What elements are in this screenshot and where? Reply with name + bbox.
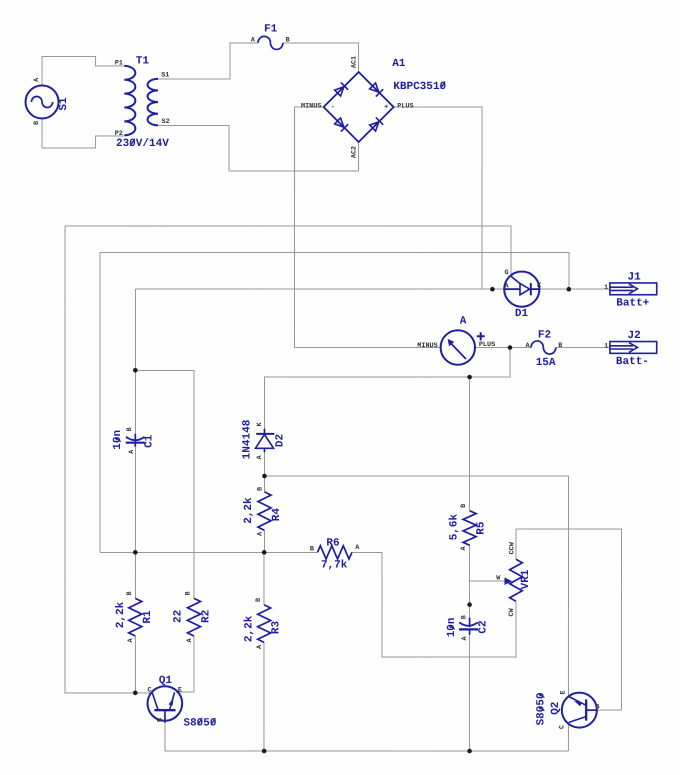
svg-text:5,6k: 5,6k <box>448 514 460 541</box>
svg-text:B: B <box>126 591 134 595</box>
svg-text:B: B <box>310 546 314 554</box>
svg-text:A: A <box>257 531 265 536</box>
svg-text:A: A <box>355 544 360 552</box>
svg-text:MINUS: MINUS <box>417 342 437 350</box>
svg-text:C: C <box>558 725 566 729</box>
svg-text:B: B <box>255 598 263 602</box>
svg-text:C: C <box>147 686 151 694</box>
svg-text:1: 1 <box>604 343 608 351</box>
svg-text:A: A <box>256 644 264 649</box>
svg-text:A: A <box>127 637 135 642</box>
svg-text:R4: R4 <box>271 508 283 522</box>
svg-text:G: G <box>505 269 509 277</box>
svg-text:A: A <box>186 637 194 642</box>
svg-text:R3: R3 <box>270 620 282 634</box>
svg-text:2,2k: 2,2k <box>243 497 255 524</box>
svg-text:B: B <box>558 342 562 350</box>
svg-text:1N4148: 1N4148 <box>241 419 253 459</box>
svg-text:7,7k: 7,7k <box>321 559 348 571</box>
svg-text:15A: 15A <box>536 357 556 369</box>
svg-text:R6: R6 <box>326 537 339 549</box>
svg-text:J1: J1 <box>628 272 642 284</box>
svg-text:R5: R5 <box>476 521 488 535</box>
svg-text:Q2: Q2 <box>550 702 562 715</box>
svg-text:Batt-: Batt- <box>616 356 649 368</box>
svg-text:2,2k: 2,2k <box>244 615 256 642</box>
svg-text:VR1: VR1 <box>520 569 532 589</box>
svg-text:S2: S2 <box>162 118 170 126</box>
svg-text:F1: F1 <box>264 23 278 35</box>
svg-text:D2: D2 <box>274 434 286 447</box>
svg-text:C2: C2 <box>477 620 489 633</box>
svg-text:Q1: Q1 <box>159 675 173 687</box>
svg-text:A: A <box>256 455 264 460</box>
svg-text:AC1: AC1 <box>351 56 359 68</box>
svg-text:KBPC3510: KBPC3510 <box>393 81 446 93</box>
svg-text:C1: C1 <box>144 434 156 448</box>
svg-text:B: B <box>126 427 134 431</box>
svg-text:-: - <box>331 103 335 111</box>
svg-text:A: A <box>461 635 469 640</box>
svg-text:K: K <box>256 421 264 426</box>
svg-text:T1: T1 <box>136 55 150 67</box>
svg-text:PLUS: PLUS <box>397 102 413 110</box>
svg-text:A: A <box>128 449 136 454</box>
svg-text:R1: R1 <box>142 610 154 624</box>
svg-text:MINUS: MINUS <box>301 102 321 110</box>
svg-text:B: B <box>460 615 468 619</box>
svg-text:S1: S1 <box>161 71 169 79</box>
svg-text:B: B <box>156 718 164 722</box>
svg-text:A: A <box>33 77 41 82</box>
svg-text:A: A <box>460 316 467 328</box>
svg-text:1: 1 <box>604 284 608 292</box>
svg-text:AC2: AC2 <box>351 146 359 158</box>
svg-text:B: B <box>595 703 599 711</box>
svg-text:B: B <box>257 487 265 491</box>
svg-text:B: B <box>33 121 41 125</box>
svg-text:CCW: CCW <box>508 541 516 554</box>
svg-text:Batt+: Batt+ <box>616 298 649 310</box>
svg-text:E: E <box>178 686 182 694</box>
svg-text:R2: R2 <box>200 610 212 623</box>
svg-text:22: 22 <box>172 610 184 623</box>
svg-text:A1: A1 <box>392 58 406 70</box>
svg-text:D1: D1 <box>515 308 529 320</box>
svg-text:B: B <box>460 504 468 508</box>
svg-text:CW: CW <box>508 607 516 616</box>
svg-text:B: B <box>185 591 193 595</box>
svg-text:A: A <box>460 545 468 550</box>
svg-text:E: E <box>560 690 568 694</box>
svg-text:P2: P2 <box>115 130 123 138</box>
svg-text:F2: F2 <box>538 330 551 342</box>
svg-text:J2: J2 <box>628 330 641 342</box>
svg-text:+: + <box>384 103 388 111</box>
svg-text:P1: P1 <box>115 59 123 67</box>
svg-text:2,2k: 2,2k <box>115 601 127 628</box>
svg-text:230V/14V: 230V/14V <box>116 138 169 150</box>
svg-text:B: B <box>286 36 290 44</box>
svg-text:A: A <box>525 342 530 350</box>
svg-text:PLUS: PLUS <box>479 341 495 349</box>
svg-text:S1: S1 <box>58 97 70 111</box>
